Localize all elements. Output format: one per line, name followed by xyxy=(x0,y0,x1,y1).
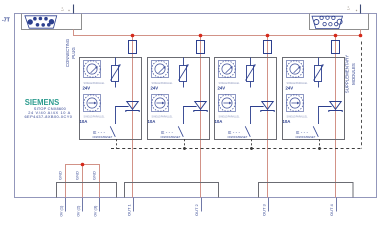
svg-text:GND: GND xyxy=(58,171,63,180)
potentiometer: 24V output-voltage adjust knob channel 2 xyxy=(152,61,169,78)
label: tiny terminal marking above X1 xyxy=(61,7,70,11)
potentiometer: 10A current-limit knob channel 3 xyxy=(219,95,236,112)
svg-text:E - - -: E - - - xyxy=(161,130,173,135)
node: junction dot channel 2 on signalling bus xyxy=(183,147,186,150)
label: 6EP4437-8XB00-0CY0 xyxy=(24,114,72,119)
fuse F2 (channel 2 protection element) xyxy=(197,41,205,54)
wire: dashed signalling bus along module bottom xyxy=(111,148,362,150)
circuit breaker Q1: electronic trip element channel 1 xyxy=(111,58,121,88)
node: junction dot channel 2 on 24V bus xyxy=(199,34,203,38)
svg-text:E - - -: E - - - xyxy=(228,130,240,135)
terminal block: OUT3/OUT4 raised contour xyxy=(259,183,354,198)
fuse F4 (channel 4 protection element) xyxy=(332,41,340,54)
circuit breaker Q4: electronic trip element channel 4 xyxy=(314,58,324,88)
svg-text:GND: GND xyxy=(92,171,97,180)
wire: dashed control link channel 2 down to signalling bus xyxy=(184,139,186,149)
svg-text:E - - -: E - - - xyxy=(93,130,105,135)
terminal pin: OUT 3 xyxy=(262,198,269,217)
module outline: SITOP CNX8600 enclosure xyxy=(15,14,377,198)
svg-text:24V: 24V xyxy=(286,85,294,90)
terminal pin: OUT 4 xyxy=(329,198,337,217)
value label: fine print under voltage knob channel 3 xyxy=(219,82,241,85)
node: junction dot on GND bus xyxy=(81,163,85,167)
value label: fine print under voltage knob channel 1 xyxy=(84,82,106,85)
value label: 24V channel 3 xyxy=(218,85,226,90)
terminal pin: OUT 2 xyxy=(194,198,202,217)
switch S3: manual ON/OFF/RESET contact channel 3 xyxy=(228,126,251,139)
svg-text:GND: GND xyxy=(75,171,80,180)
circuit breaker Q3: electronic trip element channel 3 xyxy=(246,58,256,88)
potentiometer: 24V output-voltage adjust knob channel 1 xyxy=(84,61,101,78)
svg-text:0V (2): 0V (2) xyxy=(76,205,81,217)
label: SITOP CNX8600 xyxy=(34,106,67,111)
svg-text:OUT 2: OUT 2 xyxy=(194,204,199,216)
terminal pin: 0V (1) xyxy=(59,198,66,217)
wire: dashed control link channel 4 down to signalling bus xyxy=(319,139,321,149)
value label: 10A channel 1 xyxy=(80,119,88,124)
svg-text:OUT 3: OUT 3 xyxy=(262,204,267,216)
logo: SIEMENS xyxy=(25,98,60,107)
wire: branch from diode D1 to switch S1 xyxy=(116,107,129,125)
wire: external L+ lead into connector X2 xyxy=(360,5,362,14)
connector X2 housing (right, to supplementary modules) xyxy=(310,14,369,30)
svg-text:E - - -: E - - - xyxy=(296,130,308,135)
value label: fine print under current knob channel 1 xyxy=(84,115,106,118)
terminal pin: 0V (2) xyxy=(76,198,83,217)
diode D3: suppressor diode on output line channel 3 xyxy=(261,102,274,113)
svg-text:10A: 10A xyxy=(80,119,88,124)
value label: 24V channel 2 xyxy=(151,85,159,90)
svg-text:6EP4437-8XB00-0CY0: 6EP4437-8XB00-0CY0 xyxy=(24,114,72,119)
wire: output line channel 1 (from 24V bus to OUT 1 terminal) xyxy=(132,36,134,198)
wire: output line channel 3 (from 24V bus to OUT 3 terminal) xyxy=(267,36,269,198)
label: GND (terminal 2) xyxy=(75,171,80,180)
svg-text:L+: L+ xyxy=(61,7,65,11)
switch S2: manual ON/OFF/RESET contact channel 2 xyxy=(161,126,184,139)
svg-text:SINGLE/PARALLEL: SINGLE/PARALLEL xyxy=(84,115,106,118)
node: junction dot at X2 pin on 24V bus xyxy=(359,34,363,38)
value label: 24V channel 4 xyxy=(286,85,294,90)
value label: fine print under voltage knob channel 4 xyxy=(287,82,309,85)
channel 4 block outline xyxy=(283,58,345,140)
svg-text:10A: 10A xyxy=(148,119,156,124)
node: junction dot channel 4 on signalling bus xyxy=(318,147,321,150)
svg-text:CONNECTING: CONNECTING xyxy=(65,39,70,67)
value label: fine print under current knob channel 4 xyxy=(287,115,309,118)
connector X1 D-sub shell xyxy=(25,16,57,28)
value label: fine print under current knob channel 2 xyxy=(152,115,174,118)
wire: branch from diode D4 to switch S4 xyxy=(319,107,332,125)
svg-text:0V (1): 0V (1) xyxy=(59,205,64,217)
svg-text:ON/OFF/RESET: ON/OFF/RESET xyxy=(161,135,181,139)
svg-text:-7T: -7T xyxy=(2,18,11,24)
connector X2 sockets (female contacts) xyxy=(314,16,342,26)
terminal pin: 0V (3) xyxy=(93,198,100,217)
svg-text:24V: 24V xyxy=(151,85,159,90)
potentiometer: 24V output-voltage adjust knob channel 4 xyxy=(287,61,304,78)
svg-text:0V (3): 0V (3) xyxy=(93,205,98,217)
label: 24 V/40 A/4X 10 A xyxy=(28,110,70,115)
svg-text:SINGLE/PARALLEL: SINGLE/PARALLEL xyxy=(219,115,241,118)
svg-text:OUT 1: OUT 1 xyxy=(127,204,132,216)
svg-text:10A: 10A xyxy=(215,119,223,124)
wire: branch from diode D3 to switch S3 xyxy=(251,107,264,125)
svg-text:24V: 24V xyxy=(218,85,226,90)
connector X1 housing (left connecting plug) xyxy=(22,14,82,30)
svg-text:SUPPLEMENTARY: SUPPLEMENTARY xyxy=(345,55,350,93)
circuit breaker Q2: electronic trip element channel 2 xyxy=(179,58,189,88)
value label: fine print under voltage knob channel 2 xyxy=(152,82,174,85)
value label: 24V channel 1 xyxy=(83,85,91,90)
label: CONNECTING PLUG xyxy=(65,39,76,67)
value label: 10A channel 4 xyxy=(283,119,291,124)
svg-text:ON/OFF/RESET: ON/OFF/RESET xyxy=(93,135,113,139)
svg-text:10A: 10A xyxy=(283,119,291,124)
wire: 24V supply bus from X1 pin to X2 pin xyxy=(74,30,361,36)
wire: external L+ lead into connector X1 xyxy=(73,5,75,14)
svg-text:L+: L+ xyxy=(347,6,351,10)
value label: 10A channel 3 xyxy=(215,119,223,124)
svg-text:PLUG: PLUG xyxy=(71,47,76,58)
channel 2 block outline xyxy=(148,58,210,140)
potentiometer: 10A current-limit knob channel 1 xyxy=(84,95,101,112)
terminal pin: OUT 1 xyxy=(127,198,134,217)
wire: dashed control link channel 3 down to signalling bus xyxy=(251,139,253,149)
terminal block: GND terminals raised contour xyxy=(57,183,117,198)
node: junction dot channel 4 on 24V bus xyxy=(334,34,338,38)
label: SUPPLEMENTARY MODULES xyxy=(345,55,357,93)
terminal block: OUT1/OUT2 raised contour xyxy=(125,183,219,198)
wire: output line channel 2 (from 24V bus to OUT 2 terminal) xyxy=(200,36,202,198)
channel 3 block outline xyxy=(215,58,277,140)
svg-text:MODULES: MODULES xyxy=(351,63,356,85)
connector X1 pins (male contacts) xyxy=(28,17,55,27)
svg-text:OUT 4: OUT 4 xyxy=(329,204,334,216)
wire: GND collector bus with three drops xyxy=(66,165,100,198)
channel 1 block outline xyxy=(80,58,142,140)
potentiometer: 10A current-limit knob channel 2 xyxy=(152,95,169,112)
label: GND (terminal 1) xyxy=(58,171,63,180)
svg-text:ON/OFF/RESET: ON/OFF/RESET xyxy=(296,135,316,139)
wire: dashed boundary to supplementary modules (right) xyxy=(361,42,363,149)
node: junction dot channel 1 on 24V bus xyxy=(131,34,135,38)
svg-text:ON/OFF/RESET: ON/OFF/RESET xyxy=(228,135,248,139)
fuse F3 (channel 3 protection element) xyxy=(264,41,272,54)
wire: branch from diode D2 to switch S2 xyxy=(184,107,197,125)
node: junction dot channel 3 on 24V bus xyxy=(266,34,270,38)
svg-text:SINGLE/PARALLEL: SINGLE/PARALLEL xyxy=(152,115,174,118)
wire: dashed control link channel 1 down to signalling bus xyxy=(116,139,118,149)
svg-text:SINGLE/PARALLEL: SINGLE/PARALLEL xyxy=(287,115,309,118)
device designator -7T xyxy=(2,18,11,24)
diode D1: suppressor diode on output line channel 1 xyxy=(126,102,139,113)
svg-text:24V: 24V xyxy=(83,85,91,90)
label: tiny terminal marking above X2 xyxy=(347,6,358,11)
label: GND (terminal 3) xyxy=(92,171,97,180)
switch S4: manual ON/OFF/RESET contact channel 4 xyxy=(296,126,319,139)
node: junction dot channel 3 on signalling bus xyxy=(250,147,253,150)
value label: 10A channel 2 xyxy=(148,119,156,124)
diode D2: suppressor diode on output line channel 2 xyxy=(194,102,207,113)
fuse F1 (channel 1 protection element) xyxy=(129,41,137,54)
value label: fine print under current knob channel 3 xyxy=(219,115,241,118)
potentiometer: 24V output-voltage adjust knob channel 3 xyxy=(219,61,236,78)
connector X2 D-sub shell xyxy=(312,16,343,28)
wire: output line channel 4 (from 24V bus to OUT 4 terminal) xyxy=(335,36,337,198)
switch S1: manual ON/OFF/RESET contact channel 1 xyxy=(93,126,116,139)
diode D4: suppressor diode on output line channel 4 xyxy=(329,102,342,113)
potentiometer: 10A current-limit knob channel 4 xyxy=(287,95,304,112)
